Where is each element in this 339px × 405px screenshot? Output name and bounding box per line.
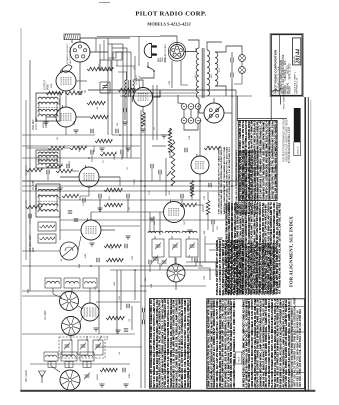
wire	[46, 116, 56, 118]
plug AC line plug	[144, 44, 157, 58]
wire misc stubs	[45, 117, 47, 128]
wire	[90, 212, 92, 220]
svg-text:PILOT RADIO CORP.: PILOT RADIO CORP.	[135, 11, 206, 18]
node box MOD 73	[294, 142, 301, 156]
capacitor C12	[126, 194, 128, 198]
node tube warranty black bar	[294, 108, 301, 142]
wire	[133, 80, 143, 88]
capacitor C37	[141, 320, 143, 324]
switch band switch S3	[60, 370, 80, 390]
wire bus 270	[110, 269, 232, 271]
resistor bleeder R15	[168, 128, 172, 152]
tube 2nd det 6Q7	[56, 107, 76, 127]
svg-text:50M: 50M	[129, 374, 131, 378]
tube output 6K6G	[134, 88, 153, 107]
svg-text:SPEAKER HOOKUP: SPEAKER HOOKUP	[66, 43, 69, 64]
resistor R20	[190, 180, 194, 196]
resistor R9	[118, 88, 135, 92]
wire v9	[231, 84, 233, 265]
svg-text:R.F.: R.F.	[27, 288, 30, 293]
wire	[188, 40, 199, 48]
capacitor C24	[211, 220, 213, 224]
capacitor C8	[90, 129, 92, 133]
wire table leader line	[237, 118, 287, 120]
tube 1st AF 6Q7	[191, 156, 209, 174]
capacitor C14	[124, 244, 126, 248]
variable capacitor tuning gang	[60, 242, 78, 260]
capacitor C16	[120, 150, 122, 154]
switch band switch S1	[60, 292, 79, 311]
svg-text:50M: 50M	[79, 264, 81, 268]
node alignment chart block	[215, 119, 278, 295]
wire bus h2	[100, 92, 196, 94]
wire output trans leads	[118, 72, 127, 80]
capacitor C9	[115, 129, 117, 133]
svg-text:PILOT RADIO LTD.: PILOT RADIO LTD.	[283, 90, 286, 109]
wire af links	[181, 198, 183, 205]
capacitor C3	[122, 368, 124, 372]
svg-text:FINISH ......... DATE 10-12-39: FINISH ......... DATE 10-12-39 ...	[289, 61, 292, 94]
wire	[231, 62, 233, 73]
wire	[124, 96, 126, 108]
wire bus h3	[120, 95, 252, 97]
resistor R26	[62, 194, 78, 198]
wire v6	[140, 110, 142, 270]
resistor R5	[87, 101, 105, 105]
title block PILOT RADIO CORPORATION	[270, 33, 303, 96]
capacitor line filter	[230, 58, 232, 62]
wire v4	[126, 48, 128, 158]
wire osc links	[149, 264, 151, 272]
svg-text:SEC.: SEC.	[211, 73, 213, 78]
wire v13	[152, 85, 154, 140]
resistor R21	[204, 146, 220, 150]
svg-text:PRI.: PRI.	[195, 74, 197, 78]
wire bus 200	[60, 199, 200, 201]
resistor R18	[100, 152, 116, 156]
wire bus 334	[22, 333, 135, 335]
wire bus 212	[91, 211, 163, 213]
capacitor C34	[28, 214, 30, 218]
svg-text:A.F. AMP: A.F. AMP	[44, 310, 47, 321]
node coil base boxes	[48, 362, 56, 368]
wire	[76, 80, 87, 82]
capacitor C10	[98, 194, 100, 198]
capacitor C7	[78, 91, 82, 93]
socket speaker plug bottom view	[70, 42, 90, 62]
inductor IF can T3	[36, 93, 60, 121]
trimmer C2	[85, 374, 90, 376]
wire v10	[235, 90, 237, 186]
wire bus 226	[101, 225, 140, 227]
node parts table bottom left	[149, 218, 192, 388]
svg-text:ANT. LEAD: ANT. LEAD	[25, 370, 28, 383]
resistor R19	[46, 164, 62, 168]
node dial lamp box	[113, 52, 122, 60]
capacitor C35	[82, 198, 84, 202]
wire	[99, 198, 101, 212]
ground symbols	[43, 121, 48, 123]
inductor ant coils row	[44, 352, 58, 361]
svg-text:250M: 250M	[99, 64, 101, 71]
wire bus mid1	[22, 157, 140, 159]
wire left scan edge	[20, 28, 21, 390]
resistor R25	[26, 205, 42, 209]
capacitor C19	[74, 218, 78, 220]
wire v5	[130, 52, 132, 158]
wire	[199, 98, 204, 113]
resistor R24	[56, 169, 72, 173]
node socket voltage table	[238, 29, 280, 201]
switch power on-off	[147, 62, 149, 66]
wire tuning verticals	[149, 212, 151, 233]
wire dial verticals thicken	[103, 40, 105, 60]
wire v11	[244, 140, 246, 291]
wire bus mid3	[22, 185, 236, 187]
capacitor electrolytic filter caps	[181, 104, 201, 124]
svg-text:FOR ALIGNMENT, SEE INDEX: FOR ALIGNMENT, SEE INDEX	[288, 216, 293, 287]
wire bus h146	[22, 145, 140, 147]
inductor coil row center	[148, 231, 163, 233]
wire v2	[111, 44, 113, 135]
wire v7	[144, 112, 146, 270]
node trimmer box	[100, 82, 110, 93]
inductor IF can T5	[36, 184, 60, 217]
resistor R17	[70, 146, 86, 150]
resistor R4c	[87, 67, 113, 71]
resistor R6	[90, 115, 108, 119]
wire v3	[122, 44, 124, 158]
wire bus 262	[186, 261, 232, 263]
svg-text:50M: 50M	[51, 84, 53, 88]
svg-text:SPEAKER SOCKET: SPEAKER SOCKET	[164, 43, 167, 63]
svg-text:LONG ISLAND CITY, N.Y., U.S.A.: LONG ISLAND CITY, N.Y., U.S.A.	[277, 66, 280, 93]
node parts table bottom right	[206, 216, 304, 389]
svg-text:100M: 100M	[134, 179, 136, 185]
inductor antenna hash L1	[64, 34, 80, 40]
wire mesh left-mid	[25, 165, 27, 176]
resistor R7	[95, 139, 112, 143]
capacitor C39	[190, 186, 192, 190]
resistor R27	[180, 203, 196, 207]
antenna	[39, 371, 46, 383]
svg-text:REVISED 2-4-40: REVISED 2-4-40	[297, 77, 299, 94]
wire v14	[156, 85, 158, 140]
node padder box row 2	[152, 239, 198, 257]
wire v8	[199, 120, 201, 156]
wire right links	[231, 265, 233, 270]
transformer output T2	[125, 80, 134, 97]
resistor volume control	[171, 140, 175, 185]
wire right border	[304, 97, 306, 391]
svg-text:28144: 28144	[296, 49, 302, 65]
resistor R8	[104, 188, 122, 192]
svg-text:6.3V: 6.3V	[219, 67, 221, 72]
switch band switch S2	[62, 317, 81, 336]
wire v12	[159, 212, 161, 235]
wire panel left edge	[236, 96, 238, 121]
capacitor C15	[90, 150, 92, 154]
wire	[169, 128, 171, 135]
wire top scan mark	[99, 2, 110, 4]
wire to tables	[140, 285, 206, 287]
wire cord swoosh	[60, 65, 72, 72]
wire mesh mid	[91, 154, 93, 162]
capacitor C18	[68, 210, 72, 212]
switch band switch S4	[167, 264, 185, 282]
resistor R12	[104, 203, 122, 207]
capacitor C29	[194, 258, 196, 262]
wire	[60, 176, 79, 178]
wire socket drops	[171, 61, 173, 88]
svg-text:250M: 250M	[59, 99, 61, 106]
node junction dots	[107, 89, 109, 91]
svg-text:6K6G: 6K6G	[47, 84, 50, 90]
wire bus 266	[22, 265, 200, 267]
wire verticals to bottom border	[140, 270, 142, 388]
resistor R11	[104, 244, 121, 248]
resistor R22	[206, 200, 210, 214]
wire bus 364	[30, 363, 130, 365]
resistor R2	[106, 316, 124, 320]
svg-text:50-60 CY.: 50-60 CY.	[139, 75, 141, 85]
wire bus h1	[88, 89, 236, 91]
wire bottom border	[20, 390, 315, 392]
capacitor C6	[124, 328, 128, 330]
tube rectifier 80	[204, 103, 224, 123]
wire	[80, 38, 97, 42]
resistor R16	[48, 146, 64, 150]
wire right-mid verticals	[207, 214, 209, 230]
svg-text:DET DIAL 250M .002 6K6G COIL 4: DET DIAL 250M .002 6K6G COIL 450V BIAS C…	[299, 309, 302, 387]
svg-text:MODELS S-423,S-423J: MODELS S-423,S-423J	[147, 22, 191, 27]
wire title block tails	[279, 96, 281, 105]
inductor osc coil can	[81, 303, 99, 321]
svg-text:GENUINE PILOT RADIO TUBES HERE: GENUINE PILOT RADIO TUBES HERE	[285, 119, 288, 162]
resistor cathode R14	[141, 112, 145, 126]
capacitor C28	[148, 260, 150, 264]
wire left column2	[25, 100, 27, 260]
inductor osc coils row	[45, 278, 61, 288]
svg-text:50M: 50M	[85, 254, 87, 258]
node dial box	[100, 60, 111, 70]
capacitor C5	[126, 304, 128, 308]
wire bus 220	[60, 219, 240, 221]
wire stubs near volume	[151, 168, 153, 181]
capacitor C38	[180, 194, 182, 198]
svg-text:DWG No: DWG No	[294, 56, 296, 64]
capacitor C36	[141, 308, 143, 312]
wire bottom verticals	[98, 266, 100, 334]
wire top rail	[97, 36, 160, 38]
inductor IF can T4	[36, 150, 60, 168]
transformer power T1	[196, 48, 218, 98]
svg-text:MOD 73: MOD 73	[298, 146, 300, 155]
node drawing number box 28144	[293, 38, 301, 65]
wire left column	[29, 60, 31, 291]
capacitor C11	[123, 108, 125, 112]
svg-text:PILOT: PILOT	[239, 356, 241, 363]
capacitor C20	[184, 148, 186, 152]
capacitor C13	[96, 258, 98, 262]
resistor R23	[26, 168, 42, 172]
lamp dial lamps	[239, 55, 246, 62]
svg-text:250M: 250M	[97, 374, 99, 381]
capacitor C23	[158, 170, 160, 174]
trimmer C27	[162, 260, 167, 262]
svg-text:250M: 250M	[94, 146, 96, 153]
wire 6A8 surroundings	[60, 229, 81, 231]
wire	[25, 200, 27, 207]
svg-text:IN THIS RECEIVER MODEL S-423: IN THIS RECEIVER MODEL S-423	[289, 126, 291, 163]
wire	[71, 40, 73, 44]
capacitor C25	[46, 170, 48, 174]
wire arrow pot	[167, 171, 171, 176]
svg-text:117V. A.C.: 117V. A.C.	[135, 74, 138, 85]
wire	[160, 36, 177, 45]
wire top links	[108, 43, 123, 45]
tube IF amp 6K7	[79, 167, 99, 187]
svg-text:500M: 500M	[79, 146, 81, 152]
wire bus mid4	[22, 190, 228, 192]
capacitor C21	[208, 183, 210, 187]
resistor R4	[46, 91, 63, 95]
wire bus mid2	[22, 180, 245, 182]
wire	[183, 109, 185, 117]
node padder box row 1	[59, 337, 105, 358]
wire bus h4	[22, 134, 95, 136]
capacitor C22	[150, 164, 152, 168]
capacitor C17	[66, 164, 68, 168]
node parts list text block	[225, 125, 284, 294]
wire	[175, 258, 177, 264]
wire bottom h	[96, 346, 142, 348]
resistor R13	[106, 258, 123, 262]
wire bus top	[97, 37, 130, 39]
resistor R1	[100, 368, 117, 372]
trimmer C26	[153, 257, 158, 259]
wire extra top verticals	[134, 56, 136, 80]
wire bottom-left links	[53, 288, 62, 298]
tube output 6K6G left	[56, 71, 76, 91]
wire	[241, 61, 243, 66]
node terminal strip	[38, 222, 56, 231]
wire bus 291	[22, 290, 147, 292]
resistor R4b	[66, 91, 82, 95]
tube osc section 6A8 part	[164, 202, 185, 223]
socket speaker socket chassis	[169, 43, 186, 62]
tube 1st det 6A8	[81, 220, 101, 240]
